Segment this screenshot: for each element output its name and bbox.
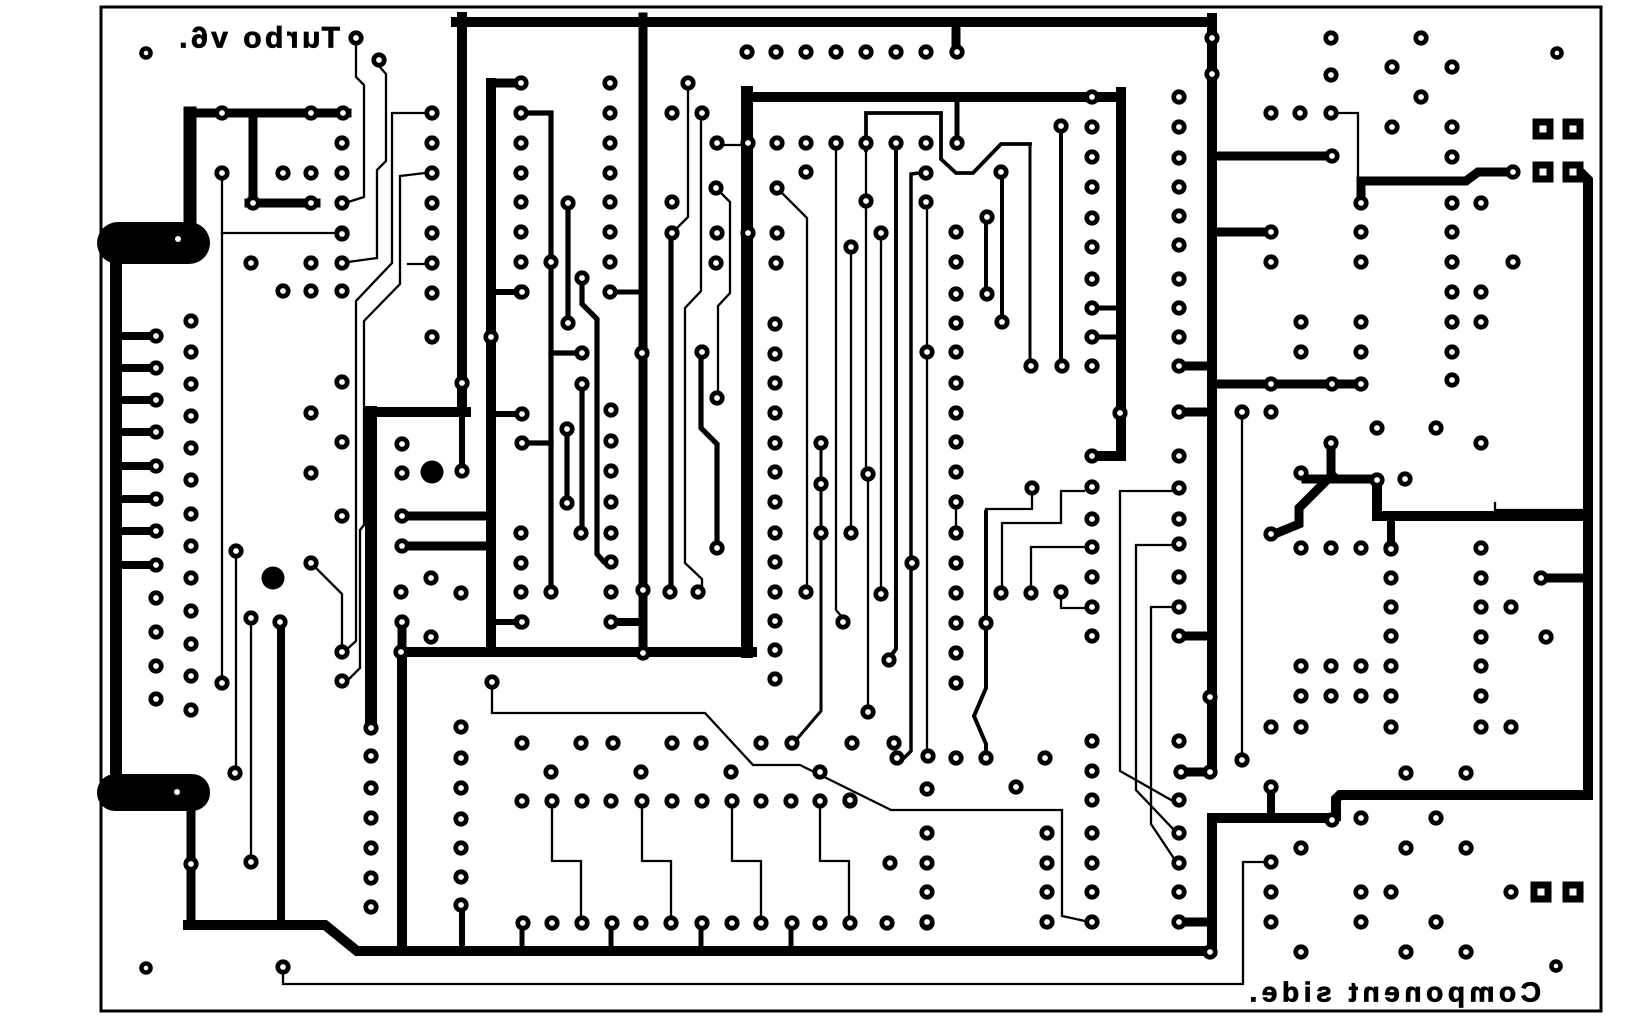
pad p160 <box>1084 539 1099 554</box>
wire w106 <box>674 90 688 231</box>
wire w28 <box>190 109 347 118</box>
pad p322 <box>515 915 530 930</box>
pad p98 <box>423 629 438 644</box>
pad p216 <box>767 671 782 686</box>
wire w13 <box>717 144 742 146</box>
wire w29 <box>184 113 197 225</box>
pad p247 <box>334 508 349 523</box>
pad p207 <box>767 405 782 420</box>
pad p33 <box>275 165 290 180</box>
pad p404 <box>1473 599 1488 614</box>
pad p432 <box>1398 840 1413 855</box>
pad p184 <box>1171 448 1186 463</box>
pad p381 <box>1353 344 1368 359</box>
pad p159 <box>1084 511 1099 526</box>
pad p32 <box>214 165 229 180</box>
wire w105 <box>926 359 928 749</box>
pad p411 <box>1383 719 1398 734</box>
pad p287 <box>948 750 963 765</box>
pad p420 <box>1323 688 1338 703</box>
wire w82 <box>974 630 986 752</box>
pad p331 <box>784 915 799 930</box>
pad p238 <box>303 555 318 570</box>
pad p42 <box>334 255 349 270</box>
pad p236 <box>243 610 258 625</box>
pad p41 <box>303 255 318 270</box>
pad p279 <box>948 464 963 479</box>
pad CN1-B12 <box>183 668 198 683</box>
pad p61 <box>513 284 528 299</box>
pad p54 <box>513 75 528 90</box>
wire w36 <box>1267 792 1275 818</box>
pad p78 <box>602 105 617 120</box>
pad p97 <box>453 585 468 600</box>
pad p276 <box>948 375 963 390</box>
pad p73 <box>559 421 574 436</box>
pad p259 <box>363 840 378 855</box>
wire w69 <box>551 350 576 355</box>
pad p336 <box>882 855 897 870</box>
pad p309 <box>694 793 709 808</box>
pad p440 <box>1383 884 1398 899</box>
pad p131 <box>709 225 724 240</box>
wire w42 <box>609 928 614 950</box>
pad p422 <box>1263 719 1278 734</box>
pad p81 <box>602 194 617 209</box>
pad CN1-A8 <box>148 557 163 572</box>
pad p273 <box>948 286 963 301</box>
pad p156 <box>1084 358 1099 373</box>
pad p124 <box>798 164 813 179</box>
wire w86 <box>222 232 335 234</box>
square pad sq2 <box>1533 162 1554 183</box>
pad p444 <box>1293 944 1308 959</box>
pad p386 <box>1353 376 1368 391</box>
pad p186 <box>1171 511 1186 526</box>
pad p167 <box>1084 825 1099 840</box>
pad p169 <box>1084 884 1099 899</box>
pad p399 <box>1353 540 1368 555</box>
pad p187 <box>1171 536 1186 551</box>
pad p211 <box>767 525 782 540</box>
wire w122 <box>1031 547 1085 586</box>
pad p161 <box>1084 569 1099 584</box>
pad p302 <box>812 764 827 779</box>
pad p290 <box>514 735 529 750</box>
pad p280 <box>948 494 963 509</box>
pad p40 <box>243 255 258 270</box>
pad p205 <box>767 346 782 361</box>
pad p318 <box>453 811 468 826</box>
wire w121 <box>1151 607 1175 860</box>
pad p305 <box>574 793 589 808</box>
pad p89 <box>603 525 618 540</box>
pad p218 <box>813 435 828 450</box>
pad p387 <box>1234 404 1249 419</box>
pad p146 <box>1053 118 1068 133</box>
wire w37 <box>398 627 407 650</box>
pad p82 <box>602 224 617 239</box>
pad p215 <box>767 642 782 657</box>
pad p412 <box>1473 629 1488 644</box>
wire w1 <box>1207 18 1217 767</box>
pad CN1-B6 <box>183 472 198 487</box>
pad CN1-A12 <box>148 691 163 706</box>
pad p192 <box>1171 792 1186 807</box>
wire w22 <box>491 411 516 417</box>
pad p283 <box>948 585 963 600</box>
wire w34 <box>188 925 1212 951</box>
pad p77 <box>602 75 617 90</box>
pad CN1-B4 <box>183 408 198 423</box>
pad p435 <box>1458 765 1473 780</box>
wire w14 <box>406 647 752 657</box>
pad p370 <box>1263 254 1278 269</box>
pad p108 <box>858 44 873 59</box>
pad p271 <box>889 750 904 765</box>
wire w59 <box>899 173 919 758</box>
pad p340 <box>919 825 934 840</box>
pad p357 <box>1444 59 1459 74</box>
pad p245 <box>334 374 349 389</box>
pad p202 <box>1204 30 1219 45</box>
pad CN1-B3 <box>183 376 198 391</box>
pad p269 <box>881 652 896 667</box>
pad p191 <box>1171 733 1186 748</box>
pad p58 <box>513 194 528 209</box>
pad hole-TR <box>1550 46 1564 60</box>
pad p330 <box>753 915 768 930</box>
pad hole-BL <box>139 961 153 975</box>
pad p367 <box>1505 164 1520 179</box>
wire w58 <box>1179 918 1212 927</box>
pad p104 <box>739 44 754 59</box>
pad p212 <box>767 554 782 569</box>
wire w43 <box>699 928 704 950</box>
pad p150 <box>1084 179 1099 194</box>
pad p250 <box>394 508 409 523</box>
pad p364 <box>1353 195 1368 210</box>
wire w54 <box>952 22 961 46</box>
wire w2 <box>1212 152 1327 161</box>
pad p37 <box>303 195 318 210</box>
wire w103 <box>890 150 896 657</box>
pad p85 <box>603 402 618 417</box>
connector capsule J2 <box>97 774 210 811</box>
pad p355 <box>1413 30 1428 45</box>
square pad sq4 <box>1531 882 1552 903</box>
pad p154 <box>1084 300 1099 315</box>
pad p266 <box>860 466 875 481</box>
pad p295 <box>753 735 768 750</box>
pad p352 <box>1323 105 1338 120</box>
wire w80 <box>984 224 988 287</box>
pad p424 <box>1473 719 1488 734</box>
wire w90 <box>408 263 424 265</box>
pad p292 <box>605 735 620 750</box>
pad p258 <box>363 810 378 825</box>
pad p394 <box>1397 471 1412 486</box>
wire w33 <box>187 806 196 921</box>
wire w9 <box>747 92 1121 102</box>
wire w81 <box>984 512 988 616</box>
pad p31 <box>334 135 349 150</box>
pad CN1-B9 <box>183 570 198 585</box>
pad p111 <box>949 44 964 59</box>
pad p45 <box>334 283 349 298</box>
wire w116 <box>1002 491 1084 587</box>
pad p116 <box>740 135 755 150</box>
pad p316 <box>453 750 468 765</box>
pad p51 <box>424 255 439 270</box>
pad p304 <box>544 793 559 808</box>
pad p385 <box>1324 376 1339 391</box>
pad p26 <box>348 30 363 45</box>
wire w96 <box>865 150 867 194</box>
pad CN1-B10 <box>183 603 198 618</box>
pad p74 <box>559 495 574 510</box>
pad p360 <box>1384 119 1399 134</box>
wire w16 <box>371 407 466 417</box>
pad p234 <box>228 543 243 558</box>
pad p325 <box>604 915 619 930</box>
pad p115 <box>709 135 724 150</box>
pad p185 <box>1171 480 1186 495</box>
pad p152 <box>1084 239 1099 254</box>
pad p34 <box>303 165 318 180</box>
pad p262 <box>183 856 198 871</box>
pad p145 <box>948 254 963 269</box>
pad p96 <box>423 570 438 585</box>
wire w83 <box>1000 179 1004 315</box>
pad p359 <box>1324 148 1339 163</box>
pad p293 <box>664 735 679 750</box>
pad p230 <box>994 314 1009 329</box>
pad p196 <box>1171 914 1186 929</box>
wire w11 <box>1097 451 1121 461</box>
wire w30 <box>249 117 258 200</box>
wire w100 <box>865 208 867 467</box>
pad p253 <box>394 614 409 629</box>
wire w35 <box>1212 818 1330 951</box>
pad p312 <box>783 793 798 808</box>
pad p237 <box>243 854 258 869</box>
pad p125 <box>858 193 873 208</box>
pad p203 <box>1204 66 1219 81</box>
pad p337 <box>842 792 857 807</box>
wire w56 <box>1092 306 1121 311</box>
pad p210 <box>767 494 782 509</box>
wire w109 <box>783 194 807 585</box>
pad p285 <box>948 645 963 660</box>
pad p447 <box>1383 541 1398 556</box>
pad p52 <box>424 285 439 300</box>
wire w61 <box>121 364 150 372</box>
pad hole-BR <box>1549 959 1563 973</box>
pad p324 <box>574 915 589 930</box>
pad p120 <box>858 135 873 150</box>
pad CN1-B7 <box>183 506 198 521</box>
pad p132 <box>740 225 755 240</box>
pad p372 <box>1444 254 1459 269</box>
pad p155 <box>1084 329 1099 344</box>
pad p204 <box>767 316 782 331</box>
wire w8 <box>1181 768 1210 777</box>
connector capsule J1 <box>97 222 210 264</box>
pad p113 <box>664 105 679 120</box>
pad p272 <box>919 344 934 359</box>
pad p201 <box>1202 944 1217 959</box>
pad p100 <box>635 582 650 597</box>
pad p383 <box>1444 372 1459 387</box>
pad p356 <box>1384 59 1399 74</box>
pad p209 <box>767 464 782 479</box>
pad p84 <box>602 284 617 299</box>
pad p30 <box>335 105 350 120</box>
pad p71 <box>574 345 589 360</box>
pad p28 <box>214 105 229 120</box>
pad p153 <box>1084 271 1099 286</box>
pad p208 <box>767 435 782 450</box>
pad p405 <box>1503 599 1518 614</box>
pad p301 <box>723 764 738 779</box>
pad p47 <box>424 135 439 150</box>
pad p43 <box>275 283 290 298</box>
wire w6 <box>1184 408 1212 417</box>
pad p298 <box>886 735 901 750</box>
pad p232 <box>272 614 287 629</box>
via v0 <box>421 461 444 484</box>
pad p299 <box>543 764 558 779</box>
pad p99 <box>634 345 649 360</box>
wire w32 <box>110 240 122 792</box>
pad p228 <box>1023 585 1038 600</box>
wire w15 <box>457 17 467 407</box>
wire w76 <box>668 240 673 585</box>
pad p224 <box>662 584 677 599</box>
wire w71 <box>579 391 584 527</box>
pad p358 <box>1413 89 1428 104</box>
square pad sq5 <box>1563 882 1584 903</box>
wire w84 <box>797 450 821 739</box>
pad p75 <box>543 584 558 599</box>
wire w97 <box>866 113 1030 173</box>
pad p114 <box>694 105 709 120</box>
pad p403 <box>1473 570 1488 585</box>
pad p67 <box>513 614 528 629</box>
pad p162 <box>1084 599 1099 614</box>
pad p129 <box>708 180 723 195</box>
pad p223 <box>709 540 724 555</box>
wire w52 <box>1361 172 1507 198</box>
pad p446 <box>1458 944 1473 959</box>
pad p118 <box>798 135 813 150</box>
pad CN1-B5 <box>183 440 198 455</box>
pad p339 <box>1008 779 1023 794</box>
pad p366 <box>1473 195 1488 210</box>
wire w66 <box>121 527 150 535</box>
pad p416 <box>1293 658 1308 673</box>
pad p135 <box>708 255 723 270</box>
pad p333 <box>842 915 857 930</box>
pad p311 <box>753 793 768 808</box>
wire w4 <box>1212 380 1356 389</box>
pad p235 <box>227 765 242 780</box>
wire w27 <box>407 542 491 551</box>
pad p390 <box>1293 465 1308 480</box>
pad p437 <box>1263 884 1278 899</box>
pad p165 <box>1084 763 1099 778</box>
pad p173 <box>1171 89 1186 104</box>
pad p442 <box>1353 914 1368 929</box>
pad p225 <box>690 584 705 599</box>
pad p197 <box>1112 405 1127 420</box>
pad p267 <box>860 704 875 719</box>
pad p76 <box>573 525 588 540</box>
wire w123 <box>1061 599 1085 608</box>
pad p110 <box>918 44 933 59</box>
pad p65 <box>513 555 528 570</box>
pad p229 <box>978 615 993 630</box>
pad p319 <box>453 840 468 855</box>
pad hole-TL <box>139 46 153 60</box>
wire w101 <box>867 481 869 705</box>
wire w60 <box>121 332 150 340</box>
pad p64 <box>513 525 528 540</box>
pad p27 <box>371 52 386 67</box>
pad p55 <box>513 105 528 120</box>
wire w99 <box>850 255 852 527</box>
wire w87 <box>235 558 237 766</box>
wire w45 <box>1336 172 1588 816</box>
pad p433 <box>1458 840 1473 855</box>
via v1 <box>262 567 285 590</box>
pad p133 <box>769 225 784 240</box>
pad p103 <box>514 614 529 629</box>
wire w112 <box>732 808 761 916</box>
pad p414 <box>1473 658 1488 673</box>
wire w102 <box>880 240 882 587</box>
pad p374 <box>1444 284 1459 299</box>
pad p391 <box>1369 420 1384 435</box>
pad p426 <box>1234 752 1249 767</box>
pad p193 <box>1171 825 1186 840</box>
pad p107 <box>828 44 843 59</box>
wire w107 <box>685 120 702 585</box>
pad p213 <box>767 584 782 599</box>
wire w73 <box>565 210 570 316</box>
pad CN1-A9 <box>148 590 163 605</box>
pad p278 <box>948 434 963 449</box>
wire w47 <box>1377 486 1588 516</box>
wire w24 <box>639 17 648 655</box>
wire w67 <box>121 561 150 569</box>
pad p341 <box>919 855 934 870</box>
pad p109 <box>888 44 903 59</box>
pad p402 <box>1533 570 1548 585</box>
pad p308 <box>664 793 679 808</box>
wire w3 <box>1212 228 1266 237</box>
pad p68 <box>560 195 575 210</box>
pad p314 <box>842 793 857 808</box>
pad p221 <box>694 344 709 359</box>
pad p406 <box>1383 570 1398 585</box>
wire w41 <box>520 928 525 950</box>
pad p163 <box>1084 628 1099 643</box>
pad p327 <box>663 915 678 930</box>
pad p220 <box>813 525 828 540</box>
pad p380 <box>1293 344 1308 359</box>
